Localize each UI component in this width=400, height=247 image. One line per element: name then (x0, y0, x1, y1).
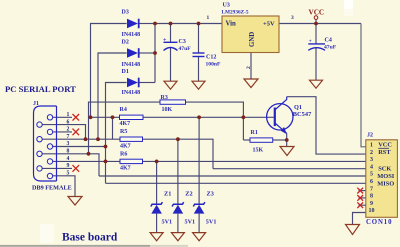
svg-text:1: 1 (207, 15, 210, 21)
svg-text:47uF: 47uF (179, 46, 192, 52)
wire: CON10 pin7 stub (359, 190, 366, 192)
no-connect X pin9 (73, 165, 80, 172)
svg-text:LM2936Z-5: LM2936Z-5 (222, 10, 249, 16)
svg-text:10K: 10K (162, 107, 173, 113)
svg-text:+: + (163, 37, 167, 43)
wire: pin1 stub (53, 116, 72, 118)
wire: VCC stub (315, 20, 317, 24)
wire: pin9 stub (42, 167, 72, 169)
wire: C12 to ground (198, 56, 200, 81)
svg-text:4: 4 (67, 156, 70, 162)
svg-text:PC SERIAL PORT: PC SERIAL PORT (5, 84, 76, 94)
wire: D3 anode from vertical (91, 24, 127, 118)
node: R4 left junction (89, 115, 93, 119)
wire: top supply bus left segment (155, 23, 222, 25)
node: D2 drop junction (96, 137, 100, 141)
svg-text:J1: J1 (33, 101, 39, 107)
wire: R1 right lead (273, 139, 287, 141)
wire: Z3 ground lead (198, 214, 200, 233)
node: base row tie (111, 115, 115, 119)
zener Z2 (172, 190, 195, 225)
svg-text:4: 4 (370, 164, 373, 170)
svg-text:1: 1 (67, 112, 70, 118)
wire: SCK bus (213, 168, 366, 170)
J2 pin numbers (369, 143, 375, 215)
svg-text:DB9 FEMALE: DB9 FEMALE (32, 185, 72, 192)
svg-text:R3: R3 (161, 95, 168, 101)
svg-text:RST: RST (378, 149, 391, 156)
svg-text:R1: R1 (251, 130, 258, 136)
ground: under DB9 pin5 (68, 197, 82, 206)
wire: C12 drop (198, 24, 200, 54)
wire: MISO bus (106, 182, 366, 184)
node: C12 tap (197, 22, 201, 26)
transistor Q1 (267, 97, 312, 135)
node: cathode bus junction (153, 22, 157, 26)
svg-text:6: 6 (67, 119, 70, 125)
svg-text:U3: U3 (223, 3, 230, 9)
ground: under U3 pin2 (244, 79, 258, 88)
svg-text:C4: C4 (325, 38, 332, 44)
wire: CON10 pin9 stub (359, 204, 366, 206)
node: R3/R1 junction (242, 115, 246, 119)
svg-text:R6: R6 (120, 151, 127, 157)
wire: Z1 ground lead (156, 214, 158, 233)
capacitor C12 (193, 53, 222, 67)
resistor R5 (120, 129, 143, 149)
regulator U3 (207, 3, 295, 69)
J1 pin circles right column (47, 115, 52, 179)
node: R1 right / emitter junction (285, 138, 289, 142)
svg-text:8: 8 (370, 194, 373, 200)
ground: under C4 (310, 80, 323, 88)
svg-text:5V1: 5V1 (185, 218, 196, 225)
wire: U3 pin2 to ground (250, 53, 252, 80)
node: D1 drop junction (104, 145, 108, 149)
svg-text:2: 2 (370, 150, 373, 156)
wire: emitter to ground (286, 133, 288, 146)
capacitor C3 (163, 37, 191, 52)
ground: under Z3 (193, 233, 206, 241)
connector J1 DB9 (32, 101, 72, 192)
svg-text:Z1: Z1 (164, 190, 171, 197)
wire: pin8 row to MOSI bus (42, 154, 99, 176)
wire: D1 cathode (140, 82, 156, 84)
svg-text:D1: D1 (122, 69, 129, 75)
wire: pin5 row to ground (53, 176, 75, 197)
wire: C4 drop (315, 24, 317, 44)
svg-text:Z3: Z3 (207, 190, 214, 197)
no-connect X pin2 (73, 129, 80, 136)
wire: collector to CON10 pin2 (287, 97, 366, 154)
scan artifact: white strip top (344, 0, 353, 9)
wire: R5 right lead to SCK bus (143, 139, 214, 169)
svg-text:4K7: 4K7 (120, 166, 131, 172)
svg-text:15K: 15K (253, 147, 264, 153)
wire: base row (143, 116, 275, 118)
wire: pin7 row to R5 (42, 138, 120, 140)
node: VCC junction (314, 22, 318, 26)
svg-text:7: 7 (370, 186, 373, 192)
node: Z3 top junction (197, 115, 201, 119)
J1 pin numbers (67, 112, 70, 177)
wire: R6 right lead / pin3 bus (143, 160, 366, 162)
ground: under Z1 (150, 233, 163, 241)
svg-text:R4: R4 (120, 107, 127, 113)
wire: Z2 ground lead (177, 214, 179, 233)
svg-text:C12: C12 (206, 54, 216, 60)
svg-text:10: 10 (369, 208, 375, 214)
svg-text:SCK: SCK (378, 166, 391, 173)
wire: D2 anode (98, 53, 127, 139)
diode D3 (122, 9, 141, 38)
svg-text:D3: D3 (122, 9, 129, 15)
svg-text:Vin: Vin (226, 20, 237, 27)
node: C3 tap (169, 22, 173, 26)
wire: R4 left lead (91, 116, 120, 118)
svg-text:IN4148: IN4148 (122, 62, 141, 68)
node: D2 cathode junction (153, 51, 157, 55)
resistor R6 (120, 151, 143, 171)
wire: R4/base tie vertical (112, 117, 114, 139)
svg-text:Q1: Q1 (294, 104, 302, 111)
no-connect X J2 pin8 (357, 195, 363, 201)
resistor R1 (250, 130, 273, 153)
ground: under Z2 (171, 233, 184, 241)
no-connect X J2 pin7 (357, 188, 363, 194)
svg-text:MISO: MISO (377, 181, 394, 188)
svg-text:CON10: CON10 (366, 219, 392, 226)
wire: Z2 vertical (177, 139, 179, 204)
wire: C3 drop (170, 24, 172, 43)
diode D1 (122, 69, 141, 96)
diode D2 (122, 39, 141, 67)
svg-text:3: 3 (291, 15, 294, 21)
svg-text:5: 5 (370, 172, 373, 178)
WIRES-MID (89, 97, 366, 233)
power VCC (309, 9, 325, 20)
wire: D3 cathode (140, 23, 156, 25)
svg-text:4K7: 4K7 (120, 121, 131, 127)
wire: D1 anode (106, 83, 127, 184)
ground: under C3 (164, 81, 177, 89)
svg-text:Base board: Base board (62, 232, 118, 244)
J1 pin circles left column (37, 122, 42, 171)
wire: MOSI bus (99, 175, 366, 177)
svg-text:5: 5 (67, 171, 70, 177)
wire: Z1 vertical (156, 161, 158, 204)
wire: CON10 pin10 to ground (353, 213, 366, 225)
resistor R4 (120, 107, 144, 127)
WIRES-LEFT (91, 20, 366, 184)
svg-text:D2: D2 (122, 39, 129, 45)
svg-text:1: 1 (370, 143, 373, 149)
wire: diode cathode vertical (154, 24, 156, 83)
node: Z2 top junction (176, 137, 180, 141)
svg-text:100nF: 100nF (206, 61, 222, 67)
ground: under CON10 pin10 (346, 225, 360, 235)
wire: CON10 pin8 stub (359, 197, 366, 199)
wire: pin2 stub (53, 131, 72, 133)
resistor R3 (160, 95, 186, 113)
ground: under C12 (192, 81, 205, 89)
svg-text:9: 9 (67, 163, 70, 169)
svg-text:Z2: Z2 (185, 190, 192, 197)
svg-text:9: 9 (370, 201, 373, 207)
wire: pin4 row to R6 (53, 160, 120, 162)
wire: pin6 to pin7 (42, 125, 85, 140)
node: Z1 top junction (155, 160, 159, 164)
WIRES-DB9 (42, 117, 366, 196)
wire: pin3 row (53, 146, 106, 148)
svg-text:C3: C3 (179, 39, 186, 45)
zener Z3 (193, 190, 216, 225)
svg-text:4K7: 4K7 (120, 143, 131, 149)
node: pin6 join pin7 (84, 137, 88, 141)
svg-text:5V1: 5V1 (206, 218, 217, 225)
RST overline (378, 147, 389, 149)
scan artifact: white blotch left of Base board (40, 224, 54, 243)
wire: top supply bus right segment (279, 23, 361, 25)
svg-text:VCC: VCC (378, 141, 392, 148)
svg-text:8: 8 (67, 149, 70, 155)
svg-text:2: 2 (67, 127, 70, 133)
wire: C3 to ground (170, 48, 172, 82)
svg-text:IN4148: IN4148 (122, 90, 141, 96)
svg-text:IN4148: IN4148 (122, 32, 141, 38)
wire: C4 to ground (315, 48, 317, 80)
wire: Z3 vertical (198, 117, 200, 204)
svg-text:2: 2 (246, 66, 252, 69)
svg-text:BC547: BC547 (293, 111, 312, 118)
svg-text:R5: R5 (120, 129, 127, 135)
ground: under Q1 emitter (280, 147, 294, 156)
svg-text:5V1: 5V1 (162, 218, 173, 225)
connector J2 CON10 (366, 133, 398, 227)
svg-text:6: 6 (370, 179, 373, 185)
zener Z1 (151, 190, 172, 225)
wire: R1 left lead (243, 139, 250, 141)
svg-text:3: 3 (370, 157, 373, 163)
J2 signal labels (377, 141, 395, 187)
node: R6 row tie (104, 160, 108, 164)
scan artifact: gray bottom edge (0, 245, 150, 247)
svg-text:+5V: +5V (263, 20, 275, 27)
wire: D2 cathode (140, 52, 156, 54)
wire: R3 right lead (186, 102, 244, 140)
no-connect X J2 pin9 (357, 202, 363, 208)
capacitor C4 (308, 38, 336, 51)
svg-text:7: 7 (67, 134, 70, 140)
no-connect X pin1 (73, 114, 80, 121)
wire: R3 left lead to pin8 row (89, 102, 161, 154)
svg-text:47uF: 47uF (324, 45, 337, 51)
svg-text:3: 3 (67, 141, 70, 147)
node: R3 join pin8 row (87, 152, 91, 156)
wire: VCC rail to CON10 pin1 (361, 24, 366, 147)
svg-text:J2: J2 (367, 133, 373, 139)
svg-text:MOSI: MOSI (377, 173, 395, 180)
svg-text:GND: GND (249, 32, 256, 47)
svg-text:+: + (309, 39, 312, 45)
